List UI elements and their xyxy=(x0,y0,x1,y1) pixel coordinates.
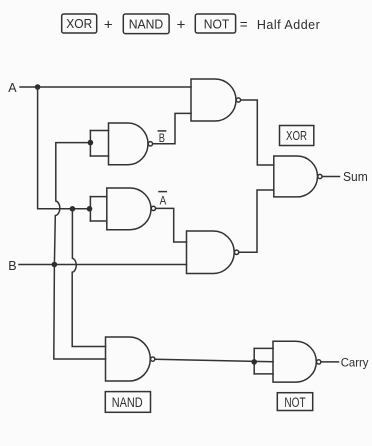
wire Carry output xyxy=(321,361,338,363)
node B junction xyxy=(52,262,58,268)
NAND inverter U2 for B-bar: input tie xyxy=(88,131,109,157)
bubble U7 xyxy=(317,360,321,364)
bubble U6 xyxy=(151,357,155,361)
svg-text:Half Adder: Half Adder xyxy=(257,18,320,32)
title box NAND xyxy=(123,14,169,34)
svg-text:NOT: NOT xyxy=(284,395,305,410)
NAND gate U2 body xyxy=(109,123,148,165)
label B-bar xyxy=(158,131,165,145)
wire U2 output to U1 lower input xyxy=(153,113,191,143)
label A-bar xyxy=(159,192,166,208)
title box XOR xyxy=(62,14,97,33)
bubble U3 xyxy=(318,174,322,178)
svg-text:NAND: NAND xyxy=(112,395,143,410)
svg-text:Sum: Sum xyxy=(343,170,368,184)
NAND label box xyxy=(105,392,150,413)
wire B horizontal to gate U4 xyxy=(19,264,187,266)
svg-text:B: B xyxy=(8,259,16,273)
bubble U1 xyxy=(236,98,240,102)
svg-text:Carry: Carry xyxy=(341,355,369,369)
wire U5 output down to U4 upper input xyxy=(156,208,187,242)
node A junction xyxy=(35,84,41,90)
bubble U4 xyxy=(234,250,238,254)
NAND inverter U5 for A-bar: input tie xyxy=(90,197,106,221)
wire A down to U6 NAND with hop over B wire xyxy=(72,209,105,347)
NAND gate U3 body (Sum gate) xyxy=(274,156,318,197)
wire Sum output xyxy=(322,176,339,178)
svg-text:A: A xyxy=(160,195,167,207)
svg-text:=: = xyxy=(240,17,248,32)
wire U1 output down to U3 xyxy=(241,100,274,165)
node A-bar tie junction xyxy=(87,206,93,212)
NAND gate U5 body xyxy=(107,188,151,230)
svg-text:XOR: XOR xyxy=(286,129,307,143)
svg-text:+: + xyxy=(177,17,186,34)
wire B up to U2 inverter with hop over A wire xyxy=(54,143,90,265)
wire U4 output up to U3 lower input xyxy=(239,190,274,252)
wire U6 output to U7 xyxy=(155,359,273,361)
svg-text:XOR: XOR xyxy=(66,17,92,31)
XOR label box xyxy=(280,126,314,146)
wire B down to U6 NAND xyxy=(54,265,106,360)
NAND gate U4 body (A-bar NAND B) xyxy=(187,231,235,274)
bubble U5 xyxy=(151,206,155,210)
title box NOT xyxy=(195,14,235,33)
node A branch junction xyxy=(70,206,76,212)
NAND gate U7 body xyxy=(273,341,316,382)
NAND inverter U7 (NOT): input tie xyxy=(251,348,273,374)
wire A horizontal to gate U1 xyxy=(20,86,191,88)
svg-text:+: + xyxy=(104,17,113,34)
NAND gate U6 body (carry NAND) xyxy=(106,337,151,381)
svg-text:A: A xyxy=(8,81,17,95)
svg-text:NAND: NAND xyxy=(129,18,164,32)
svg-text:NOT: NOT xyxy=(204,17,230,31)
wire A vertical down xyxy=(38,87,90,209)
NOT label box xyxy=(277,393,312,411)
NAND gate U1 body (A NAND B-bar) xyxy=(191,79,236,121)
bubble U2 xyxy=(148,142,152,146)
